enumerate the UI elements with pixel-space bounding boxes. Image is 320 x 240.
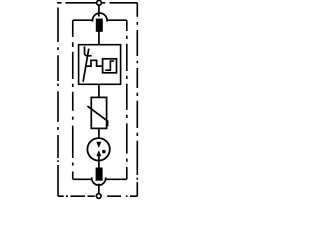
wire from spark gap to bottom plug contact xyxy=(98,155,100,168)
outer device boundary dash-dot rectangle, right side xyxy=(136,3,138,196)
outer device boundary dash-dot rectangle, top side xyxy=(57,2,137,4)
bottom plug-in contact pin (filled) xyxy=(96,168,103,181)
status indicator box xyxy=(103,59,117,73)
bottom plug-in contact socket arc xyxy=(92,177,106,185)
protection module boundary chain rectangle, bottom side xyxy=(73,178,127,180)
outer device boundary dash-dot rectangle, left side xyxy=(57,8,59,197)
wire from top terminal to top plug contact xyxy=(98,5,100,17)
protection module boundary chain rectangle, top side xyxy=(73,19,127,21)
spark gap lower electrode arrowhead (up) xyxy=(96,150,101,156)
spark gap (gas discharge tube) circle xyxy=(87,138,109,160)
varistor diagonal stroke with bent tail xyxy=(87,106,107,126)
wire from top contact pin to disconnector box xyxy=(98,32,100,45)
disconnector switch blade xyxy=(83,49,89,82)
bottom terminal node xyxy=(96,194,101,199)
step-function symbol in indicator box xyxy=(105,61,114,70)
wire from disconnector box to varistor xyxy=(98,84,100,97)
top plug-in contact pin (filled) xyxy=(96,19,103,32)
protection module boundary chain rectangle, left side xyxy=(72,20,74,179)
protection module boundary chain rectangle, right side xyxy=(126,20,128,179)
wire from bottom contact to bottom terminal xyxy=(98,184,100,194)
thermal release hook xyxy=(85,46,92,55)
top plug-in contact socket arc xyxy=(93,13,108,22)
spark gap gas-filled dot xyxy=(102,150,106,154)
varistor body rectangle xyxy=(91,97,106,128)
square-wave link from blade to indicator xyxy=(86,60,103,66)
spark gap upper electrode arrowhead (down) xyxy=(96,142,101,148)
wire from varistor to spark gap xyxy=(98,128,100,143)
thermal disconnector / monitoring box outline xyxy=(79,45,121,85)
top terminal node xyxy=(97,0,102,5)
outer device boundary dash-dot rectangle, bottom side xyxy=(58,195,137,197)
